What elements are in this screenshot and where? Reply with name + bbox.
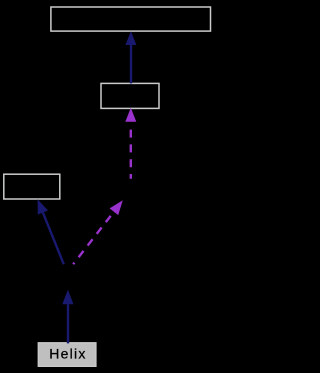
edge: Helix -> up (solid inheritance arrow to invisible node) [62,290,73,344]
edge: solid inheritance arrow from junction to left box [38,199,64,264]
edge: middle box -> top box (solid inheritance arrow) [125,31,136,83]
svg-text:Helix: Helix [49,346,86,362]
edge: dashed usage arrow into middle box (upper segment) [125,108,136,179]
node: left base-class box (label black-on-black, not visible) [4,174,60,199]
edge: dashed usage arrow from junction up-right (lower segment) [73,200,123,264]
node Helix (current class, grey filled) [38,343,96,367]
node: middle class box (label black-on-black, not visible) [101,83,159,108]
node: top base-class box (label black-on-black, not visible) [51,7,211,31]
